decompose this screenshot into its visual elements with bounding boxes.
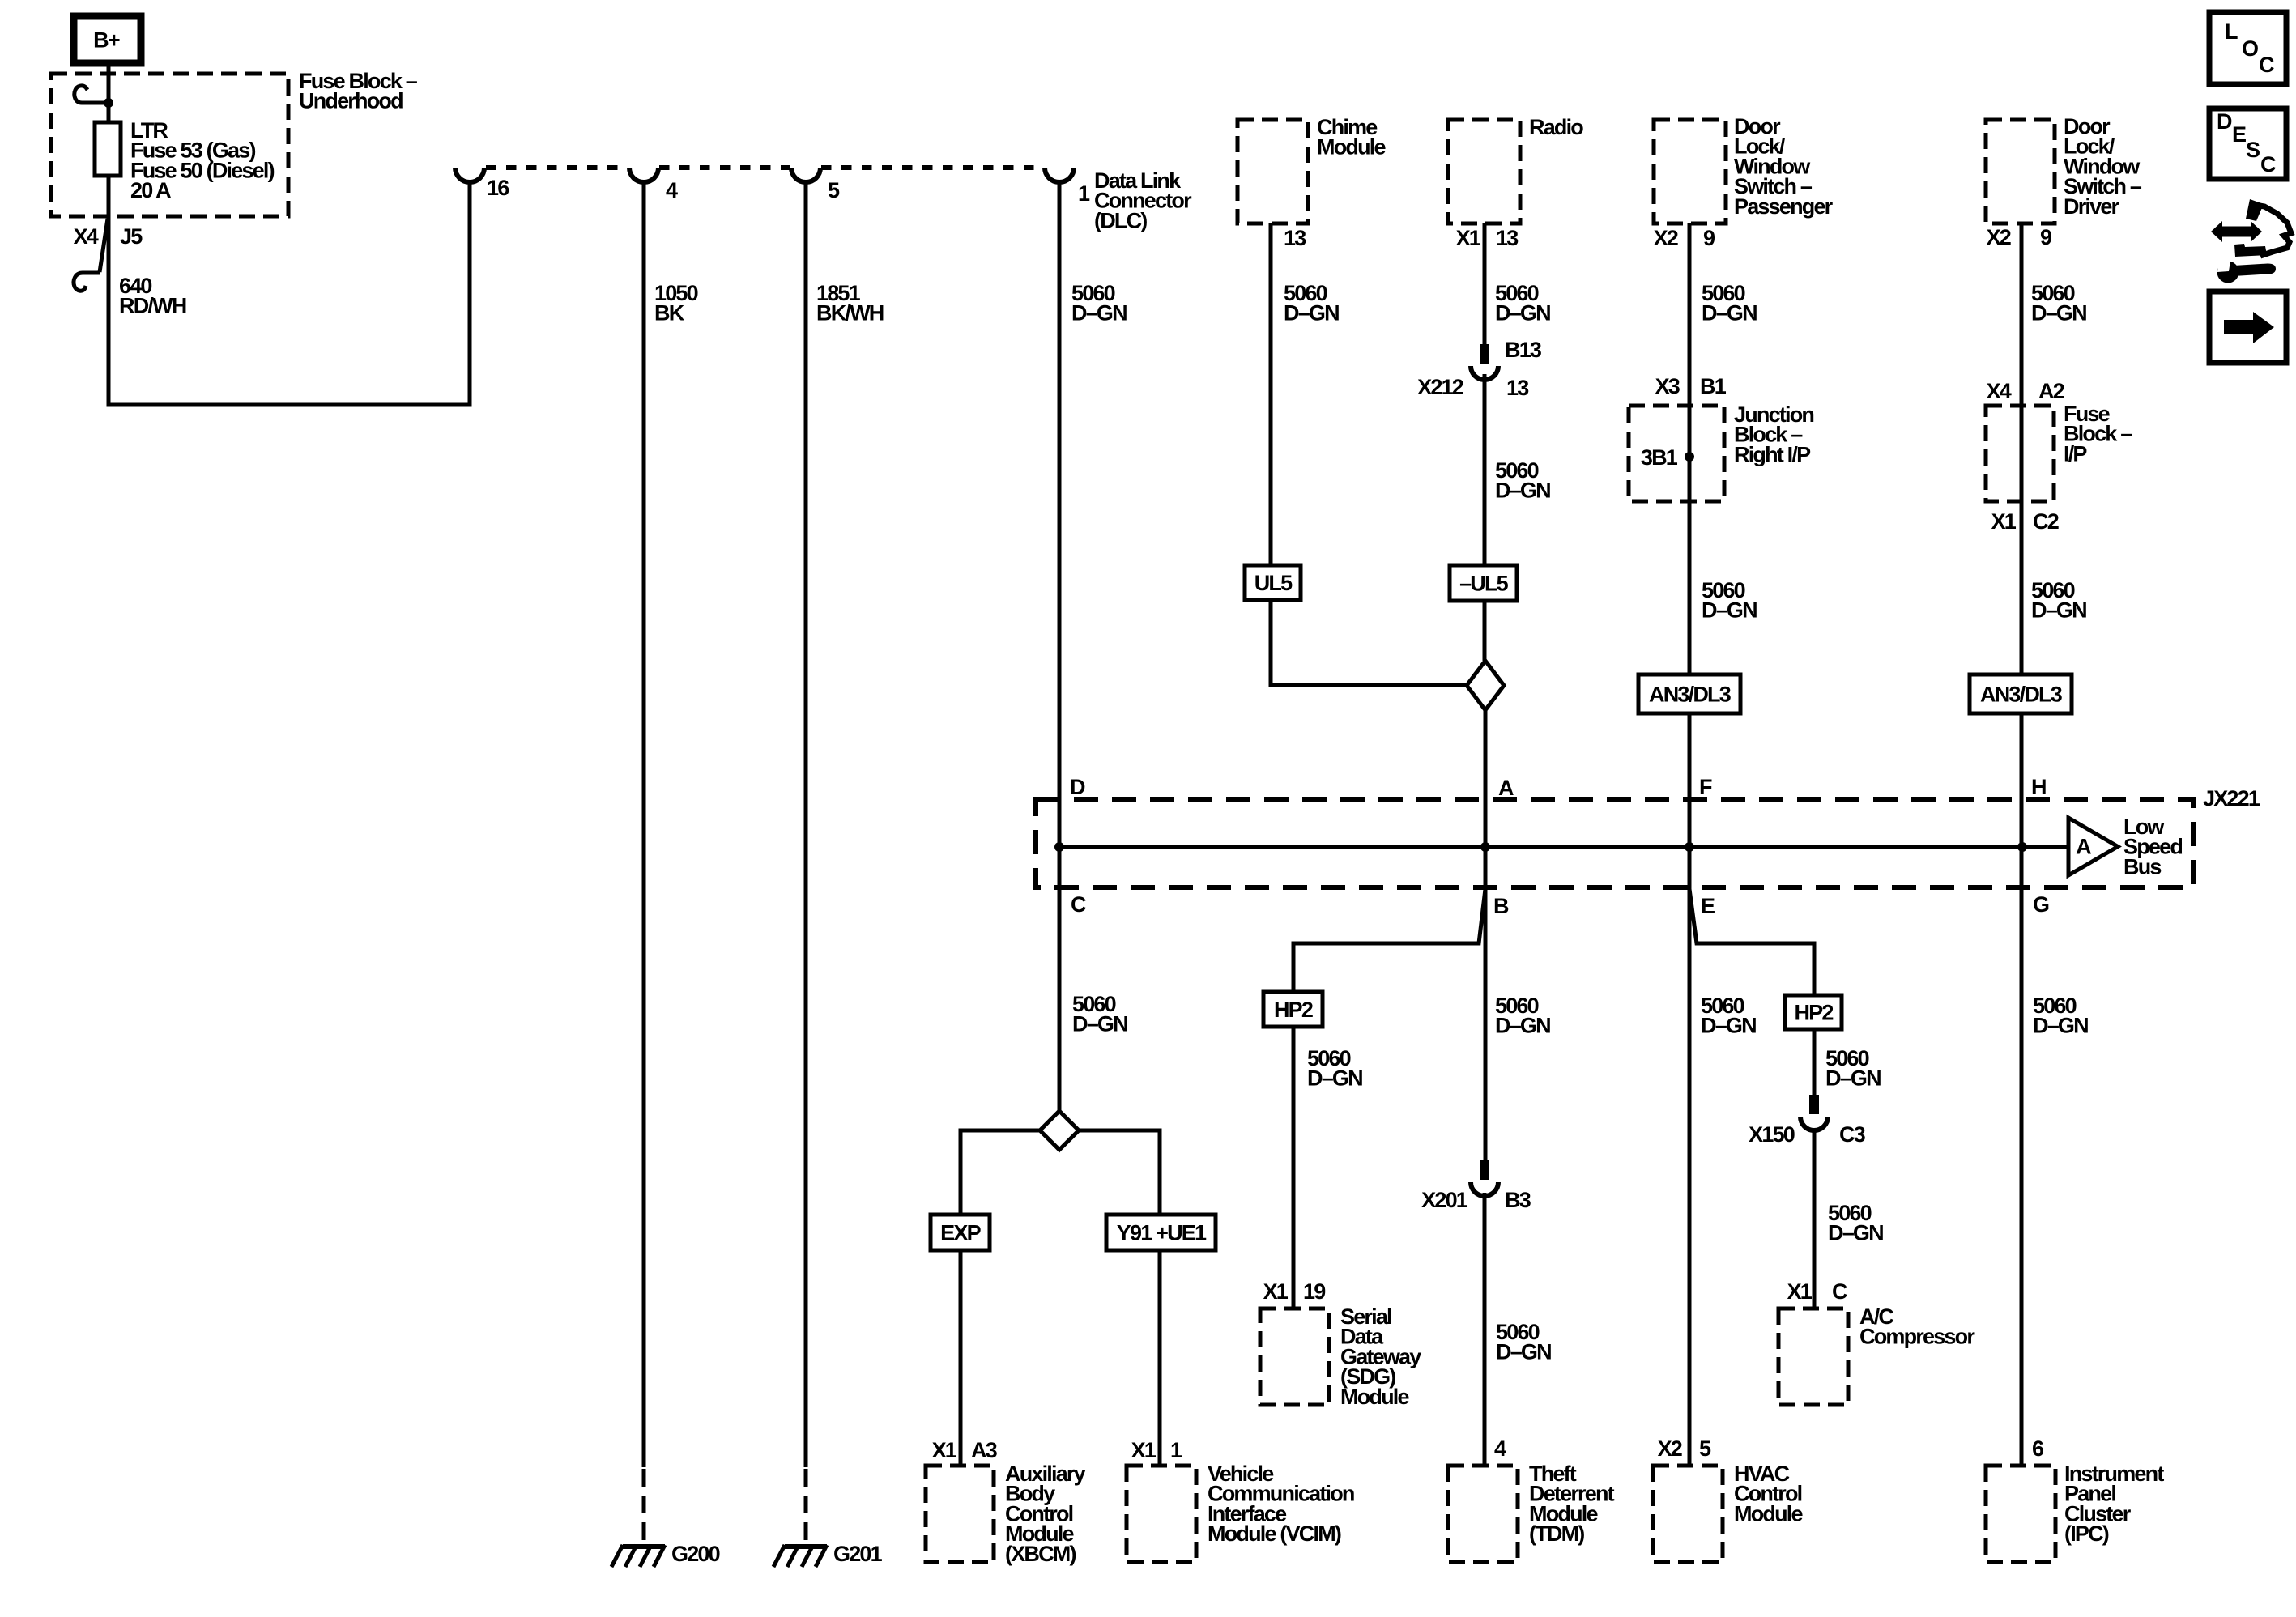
- svg-text:(IPC): (IPC): [2064, 1521, 2109, 1546]
- svg-text:D–GN: D–GN: [1284, 301, 1339, 326]
- svg-text:S: S: [2246, 138, 2260, 162]
- svg-text:X1: X1: [1131, 1438, 1157, 1462]
- svg-text:X201: X201: [1421, 1188, 1468, 1212]
- svg-text:X1: X1: [1263, 1279, 1289, 1304]
- svg-text:5: 5: [1699, 1436, 1711, 1461]
- svg-text:Radio: Radio: [1529, 115, 1583, 139]
- svg-text:X2: X2: [1654, 226, 1678, 250]
- svg-text:D–GN: D–GN: [1307, 1066, 1362, 1091]
- svg-text:D–GN: D–GN: [1496, 1340, 1551, 1364]
- svg-text:C: C: [2259, 53, 2274, 77]
- svg-text:X2: X2: [1658, 1436, 1682, 1461]
- svg-text:BK: BK: [654, 301, 685, 326]
- svg-text:Passenger: Passenger: [1734, 194, 1834, 219]
- svg-text:20 A: 20 A: [130, 178, 171, 202]
- svg-text:5: 5: [828, 178, 840, 202]
- svg-text:(XBCM): (XBCM): [1005, 1542, 1076, 1566]
- svg-text:X1: X1: [1456, 226, 1481, 250]
- svg-text:HP2: HP2: [1274, 998, 1313, 1022]
- svg-text:3B1: 3B1: [1641, 445, 1678, 470]
- svg-text:–UL5: –UL5: [1459, 571, 1509, 595]
- svg-text:F: F: [1699, 775, 1712, 799]
- svg-text:Module: Module: [1340, 1385, 1409, 1409]
- svg-text:Compressor: Compressor: [1859, 1325, 1975, 1349]
- svg-text:A3: A3: [971, 1438, 998, 1462]
- svg-text:X2: X2: [1987, 225, 2011, 249]
- svg-text:D–GN: D–GN: [1495, 479, 1550, 503]
- svg-text:RD/WH: RD/WH: [119, 294, 186, 318]
- svg-text:A: A: [1498, 776, 1514, 800]
- svg-text:X1: X1: [932, 1438, 957, 1462]
- svg-text:6: 6: [2032, 1436, 2044, 1461]
- svg-text:19: 19: [1303, 1279, 1326, 1304]
- svg-text:D–GN: D–GN: [1071, 301, 1127, 326]
- svg-text:X1: X1: [1991, 509, 2017, 534]
- svg-text:D–GN: D–GN: [1825, 1066, 1881, 1091]
- svg-text:AN3/DL3: AN3/DL3: [1980, 682, 2063, 706]
- svg-text:C3: C3: [1839, 1122, 1866, 1147]
- svg-text:Module: Module: [1317, 135, 1386, 160]
- svg-text:16: 16: [487, 176, 509, 200]
- svg-text:(DLC): (DLC): [1094, 208, 1147, 232]
- svg-text:Bus: Bus: [2123, 854, 2161, 879]
- svg-text:Driver: Driver: [2064, 194, 2120, 219]
- svg-text:I/P: I/P: [2064, 441, 2087, 466]
- svg-text:G201: G201: [833, 1542, 883, 1566]
- svg-text:9: 9: [1703, 226, 1715, 250]
- svg-text:L: L: [2225, 19, 2238, 44]
- svg-text:Right I/P: Right I/P: [1734, 442, 1811, 466]
- svg-text:D–GN: D–GN: [1495, 301, 1550, 326]
- svg-text:X3: X3: [1655, 374, 1680, 398]
- svg-text:X1: X1: [1787, 1279, 1813, 1304]
- svg-text:H: H: [2031, 775, 2046, 799]
- svg-text:Module (VCIM): Module (VCIM): [1208, 1521, 1341, 1546]
- svg-text:O: O: [2242, 36, 2258, 61]
- svg-text:Underhood: Underhood: [299, 89, 403, 113]
- svg-text:B13: B13: [1505, 338, 1542, 362]
- svg-text:UL5: UL5: [1254, 571, 1293, 595]
- svg-text:Module: Module: [1734, 1501, 1803, 1526]
- svg-text:EXP: EXP: [940, 1220, 981, 1245]
- svg-text:4: 4: [666, 178, 678, 202]
- svg-text:A: A: [2076, 834, 2091, 858]
- svg-text:C: C: [1832, 1279, 1847, 1304]
- svg-text:B3: B3: [1505, 1188, 1531, 1212]
- svg-text:D–GN: D–GN: [2033, 1014, 2088, 1038]
- svg-text:B+: B+: [93, 28, 120, 52]
- svg-text:HP2: HP2: [1794, 1000, 1833, 1024]
- svg-text:C2: C2: [2033, 509, 2059, 534]
- svg-text:AN3/DL3: AN3/DL3: [1649, 682, 1732, 706]
- svg-text:4: 4: [1494, 1436, 1506, 1461]
- svg-text:BK/WH: BK/WH: [816, 301, 884, 326]
- svg-text:D–GN: D–GN: [1701, 1014, 1756, 1038]
- svg-text:J5: J5: [120, 224, 143, 249]
- svg-text:(TDM): (TDM): [1529, 1521, 1584, 1546]
- svg-text:D: D: [2217, 109, 2232, 134]
- svg-text:D–GN: D–GN: [1495, 1014, 1550, 1038]
- svg-text:1: 1: [1078, 181, 1090, 206]
- svg-text:D: D: [1070, 775, 1085, 799]
- svg-text:D–GN: D–GN: [1702, 301, 1757, 326]
- svg-text:E: E: [2232, 122, 2246, 147]
- svg-text:E: E: [1701, 894, 1715, 918]
- svg-text:B: B: [1493, 894, 1509, 918]
- svg-text:A2: A2: [2038, 379, 2064, 403]
- svg-text:G: G: [2033, 892, 2049, 917]
- svg-text:X4: X4: [74, 224, 99, 249]
- svg-text:13: 13: [1496, 226, 1519, 250]
- svg-text:D–GN: D–GN: [1828, 1221, 1883, 1245]
- svg-text:13: 13: [1284, 226, 1306, 250]
- svg-text:1: 1: [1170, 1438, 1182, 1462]
- svg-text:Y91 +UE1: Y91 +UE1: [1117, 1220, 1207, 1245]
- svg-text:C: C: [2260, 152, 2276, 177]
- svg-text:X4: X4: [1987, 379, 2012, 403]
- svg-text:13: 13: [1506, 376, 1529, 400]
- svg-text:D–GN: D–GN: [2031, 301, 2086, 326]
- svg-text:G200: G200: [671, 1542, 720, 1566]
- svg-text:D–GN: D–GN: [2031, 598, 2086, 623]
- svg-text:D–GN: D–GN: [1702, 598, 1757, 623]
- svg-text:C: C: [1071, 892, 1086, 917]
- svg-text:JX221: JX221: [2203, 786, 2260, 811]
- svg-text:X150: X150: [1749, 1122, 1795, 1147]
- svg-text:D–GN: D–GN: [1072, 1012, 1127, 1036]
- svg-text:X212: X212: [1417, 375, 1463, 399]
- svg-text:B1: B1: [1700, 374, 1727, 398]
- svg-text:9: 9: [2040, 225, 2052, 249]
